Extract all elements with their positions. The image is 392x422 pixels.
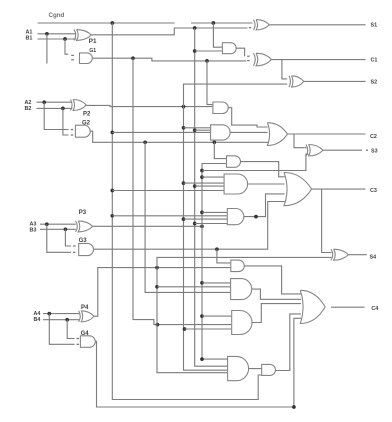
label A4 [34,311,41,317]
and gate e1 [262,364,276,375]
and gate a1 P1C0 [222,43,236,54]
or gate C3 [284,173,312,206]
wire C0 vertical bus with bottom loop to e1 [112,23,261,400]
wire P3 stub to and c3 [202,211,227,213]
xor gate P2 [71,100,87,111]
node A1 tap [45,32,49,36]
wire A2 input [37,101,73,103]
node P2-c2 junction [182,181,186,185]
svg-text:S4: S4 [370,255,377,261]
wire d2 output jog [252,289,301,299]
wire c1 output jog [241,162,285,177]
node P2-b2 junction [182,126,186,130]
and gate G3 [79,243,94,255]
label G2 [82,121,91,127]
label B3 [30,227,37,233]
label Cgnd [49,12,65,19]
wire a1 output jog [236,48,244,56]
node A2 tap [42,100,46,104]
wire C0 line right segment [191,22,253,24]
wire b1 output jog [228,108,267,127]
and gate d1 P4G3 [231,260,245,272]
wire G1 branch to and b1 [207,61,212,105]
wire P1 stub to and a1 [195,50,222,52]
wire P2 stub to and b2 [184,127,211,129]
node G3-d1 junction [215,247,219,251]
node P1-c3 junction [193,222,197,226]
and gate G2 [75,125,90,137]
wire S1 output [269,24,365,26]
wire G3 branch to and d1 [217,249,230,263]
svg-text:S3: S3 [371,149,378,155]
wire e1 output riser [276,314,302,371]
wire S2 output [304,80,366,82]
wire G4 input stub upper [77,338,80,340]
label B2 [25,106,32,112]
xor gate P3 [76,221,93,232]
wire B3 tap drop [65,229,71,246]
label G4 [81,331,90,337]
label B1 [26,36,33,42]
svg-text:B2: B2 [25,106,32,112]
and gate G1 [80,53,93,64]
wire P4 stub to and d2 [157,286,230,288]
wire C0 stub to and c3 [112,215,227,217]
node P3-s3 junction [200,169,204,173]
wire P3 vertical bus [202,164,227,360]
wire C1 branch to S2 [282,60,287,79]
wire d3 output jog [252,304,301,323]
wire B3 input [40,228,76,230]
wire c3 output jog [244,194,285,217]
label A3 [30,222,37,228]
node G4 loop corner [292,405,296,409]
wire S4 output [348,254,366,256]
svg-text:Cgnd: Cgnd [49,12,65,19]
wire G4 output loop [95,318,301,407]
node P3 junction [200,224,204,228]
and gate b2 P2P1C0 [211,125,230,140]
node P4 junction [155,266,159,270]
wire C2 output [288,133,366,135]
svg-text:P3: P3 [79,210,87,216]
svg-text:S2: S2 [371,80,378,86]
wire C1 upper input stub [247,55,249,57]
wire b2 output [230,131,268,133]
label C4 [371,306,378,312]
node G2-d2 junction [143,140,147,144]
wire P2 stub to and c3 [184,218,228,220]
svg-text:P1: P1 [89,38,97,45]
node C0 junction 2 [212,21,216,25]
wire S3 output [323,149,362,151]
label S1 [371,23,378,29]
wire S3 label dash [366,149,368,151]
node A3 tap [45,222,49,226]
label G1 [89,48,96,54]
wire P1 stub to and c3 [195,223,227,225]
node P2-d3 junction [183,327,187,331]
wire P4 vertical bus [157,268,227,373]
wire G2 input stub upper [71,129,73,131]
wire S3 upper stub [305,147,307,149]
label S3 [371,149,378,155]
node C0 junction [110,21,114,25]
node P4-d2 junction [155,285,159,289]
node C0-b2 junction [110,131,114,135]
wire G1 output [92,58,246,61]
wire C0 branch to and a1 [213,23,222,47]
node G1-P4 crossing dot [156,323,160,327]
node P3-d4 junction [200,357,204,361]
node G1-b1 junction [205,59,209,63]
wire B1 tap drop [65,39,68,54]
node P3-c2 junction [200,175,204,179]
wire P2 stub to and c2 [184,182,224,184]
and gate d3 4in [232,311,252,335]
wire P2 vertical bus [184,107,228,371]
node G2-c1 junction [212,140,216,144]
wire C0 stub to and c2 [112,190,224,192]
xor gate C1 [254,53,272,66]
wire B2 input [37,107,73,109]
label A1 [26,30,33,36]
label C1 [371,58,378,64]
wire P3 stub to and d2 [202,282,230,284]
wire P1 output [91,28,247,35]
wire G1 input stub upper [71,54,74,56]
node C0-c2 junction [110,189,114,193]
xor gate S1 [254,20,270,30]
wire C1 output [271,59,365,61]
wire c2 output [248,183,285,185]
node P3-d2 junction [200,281,204,285]
label P1 [89,38,97,45]
node C0-c3 junction [110,214,114,218]
xor gate P1 [74,30,91,41]
svg-text:B3: B3 [30,227,37,233]
node P2 junction [182,105,186,109]
and gate b1 P2G1 [213,102,228,114]
label P2 [83,112,91,118]
svg-text:B4: B4 [34,317,41,323]
wire G2 input stub lower [71,134,73,136]
wire P1 stub to and b2 [195,129,210,131]
wire P3 output [93,225,202,227]
node B1 tap [63,37,67,41]
wire B4 input [43,319,79,321]
wire G3 output [94,202,285,250]
node P3-d3 junction [200,314,204,318]
wire G4 input stub lower [77,343,80,345]
node A4 tap [47,312,51,316]
wire P1 stub to and c2 [195,185,224,187]
wire C3 output [312,188,366,190]
node P1-a1 junction [193,49,197,53]
label A2 [25,100,32,106]
node P1 junction [193,26,197,30]
or gate C2 [267,123,287,146]
wire G2 branch to and c1 [214,142,226,158]
wire d4 output [249,368,262,370]
svg-text:P2: P2 [83,112,91,118]
wire P4 riser to S4 [157,257,332,267]
svg-text:B1: B1 [26,36,33,42]
node P2-c3 junction [182,217,186,221]
wire C1 lower input stub [247,60,249,62]
and gate c3 4in [227,209,244,225]
or gate C4 [300,290,325,323]
node B4 tap [65,318,69,322]
xor gate S2 [289,76,304,87]
wire S1 lower input stub [249,27,251,29]
and gate c1 P3G2 [227,156,241,168]
wire d1 output jog [244,266,301,294]
wire P2 stub to and d3 [185,328,232,330]
label G3 [79,238,88,244]
wire P3 line to S3 [202,154,309,170]
xor gate S4 [331,249,348,260]
node P1-c2 junction [193,184,197,188]
wire P3 stub to and c2 [202,176,224,178]
node B2 tap [61,107,65,111]
wire C3 branch to S4 [322,189,332,252]
wire P2 riser to S2 [184,84,288,107]
svg-text:C4: C4 [371,306,378,312]
wire P1 vertical bus [195,28,228,366]
wire G2 output drop [90,131,271,145]
svg-text:C3: C3 [370,188,377,194]
svg-text:C1: C1 [371,58,378,64]
node c3 output dot [254,215,258,219]
svg-text:S1: S1 [371,23,378,29]
wire A3 input [40,223,76,225]
wire G3 input stub upper [73,245,76,247]
svg-text:G1: G1 [89,48,96,54]
xor gate S3 [306,145,323,157]
wire C4 output [331,306,365,308]
wire A4 tap drop [49,314,74,345]
label C2 [370,134,377,140]
label P4 [81,305,89,311]
and gate d2 3in [231,279,252,300]
wire B2 tap drop [63,108,69,135]
wire G1 input stub lower [71,59,74,61]
svg-text:C2: C2 [370,134,377,140]
and gate c2 4in [224,174,248,194]
node P3-c3 junction [200,211,204,215]
label B4 [34,317,41,323]
node B3 tap [64,227,68,231]
node G1 junction [131,56,135,60]
wire A1 input [38,33,77,35]
wire G1 vertical bus to and d3 [133,58,231,324]
label P3 [79,210,87,216]
label S2 [371,80,378,86]
wire P3 stub to and d3 [202,315,231,317]
node P1-b2 junction [193,128,197,132]
wire B4 tap drop [67,320,74,339]
wire P4 output riser and line to d1 [94,268,230,317]
wire C2 branch to S3 [294,134,305,148]
and gate G4 [80,336,95,348]
wire G3 input stub lower [73,251,76,253]
wire G2 vertical to and d2 [145,142,230,292]
wire A1 tap drop [46,34,48,64]
label S4 [370,255,377,261]
wire Cgnd C0 line [38,22,175,24]
wire B1 input [38,38,77,40]
wire A4 input [43,313,79,315]
wire A2 tap drop [44,102,68,129]
and gate d4 5in [228,356,249,380]
wire P2 output [86,105,212,106]
wire C0 stub to and b2 [112,131,210,133]
label C3 [370,188,377,194]
wire A3 tap drop [47,224,71,252]
xor gate P4 [79,311,94,322]
